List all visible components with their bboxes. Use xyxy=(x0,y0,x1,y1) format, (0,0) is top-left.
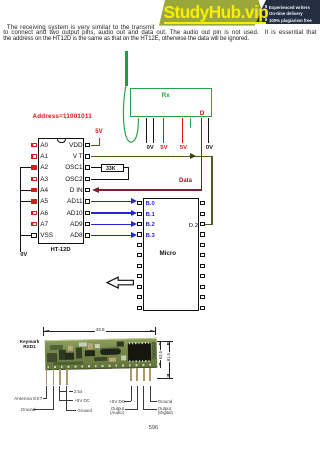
dim text 63.5 xyxy=(158,350,163,360)
VT wire vertical xyxy=(211,156,212,225)
PCB SAW filter xyxy=(100,348,121,356)
Rx label xyxy=(162,92,170,99)
HT-12D notch xyxy=(57,139,66,144)
label B.3 xyxy=(146,233,155,239)
Micro right pin 3 xyxy=(200,222,205,226)
Micro left pin 6 xyxy=(137,253,142,257)
label Output (Audio) xyxy=(107,407,124,416)
HT-12D pin box AD10 xyxy=(85,211,90,216)
antenna wire (thick) xyxy=(125,51,128,86)
HT-12D pin name OSC1 xyxy=(52,164,83,171)
PCB pin (left group) xyxy=(53,369,55,385)
Rx pin 5V b xyxy=(182,118,183,143)
HT-12D pin box A6 xyxy=(31,211,36,216)
Rx pin stub (audio) xyxy=(190,118,191,128)
HT-12D pin box AD9 xyxy=(85,222,90,227)
HT-12D pin box OSC2 xyxy=(85,177,90,182)
Micro left pin 7 xyxy=(137,264,142,268)
Micro left pin 9 xyxy=(137,285,142,289)
label B.0 xyxy=(146,201,155,207)
banner check icon 3 xyxy=(265,18,268,21)
HT-12D pin box A1 xyxy=(31,154,36,159)
bus wire A5 xyxy=(20,201,32,202)
ground bus vertical xyxy=(20,167,21,252)
dimension 43.5 left tick xyxy=(42,327,45,336)
HT-12D pin box VSS xyxy=(31,233,36,238)
dimension 43.5 right tick xyxy=(154,327,157,335)
label 0V ground xyxy=(20,252,27,258)
Micro body xyxy=(143,198,199,311)
HT-12D pin box A7 xyxy=(31,222,36,227)
PCB IC black chip xyxy=(127,343,150,361)
PCB bottom pads xyxy=(47,364,156,368)
dim line 63.5 xyxy=(159,341,162,368)
bus wire A4 xyxy=(20,190,32,191)
arrowhead into B.1 xyxy=(131,210,137,216)
Micro right pin 2 xyxy=(200,212,205,216)
Micro left pin 4 xyxy=(137,232,142,236)
resistor 33K value xyxy=(106,166,116,172)
data wire vertical (maroon) xyxy=(201,118,202,190)
HT-12D pin box A3 xyxy=(31,177,36,182)
HT-12D pin name A3 xyxy=(40,176,48,183)
resistor 33K body xyxy=(101,164,124,172)
PCB small parts xyxy=(47,353,57,362)
Micro left pin 1 xyxy=(137,201,142,205)
PCB pin (right group) xyxy=(136,368,138,381)
Micro right pin 10 xyxy=(200,295,205,299)
HT-12D pin name A7 xyxy=(40,221,48,228)
label Antenna EXT xyxy=(12,396,43,401)
Micro left pin 10 xyxy=(137,295,142,299)
label Ground (left a) xyxy=(21,407,36,412)
wire AD to B.0 (blue) xyxy=(91,201,132,202)
page number xyxy=(149,425,158,431)
HT-12D pin name AD8 xyxy=(52,232,83,239)
label D xyxy=(200,110,205,117)
VT wire arrow xyxy=(190,153,196,159)
dim ext line bottom xyxy=(157,377,173,380)
HT-12D pin name VSS xyxy=(40,232,53,239)
label Ground (left b) xyxy=(77,408,92,413)
Rx pin 5V a xyxy=(163,118,164,143)
label Keymark RXD1 xyxy=(17,340,42,349)
arrowhead into B.0 xyxy=(131,198,137,204)
studyhub olive ribbon xyxy=(158,0,263,26)
Micro left pin 3 xyxy=(137,222,142,226)
dimension 43.5 right arrowhead xyxy=(150,330,155,332)
banner line 3 xyxy=(269,18,312,23)
HT-12D pin name VDD xyxy=(52,142,83,149)
HT-12D pin box A2 xyxy=(31,165,36,170)
HT-12D pin box DIN xyxy=(85,188,90,193)
data wire horizontal xyxy=(97,189,203,190)
dimension 43.5 line xyxy=(44,330,155,333)
lead line +5V DC (left) xyxy=(58,386,61,401)
label Data xyxy=(179,178,192,184)
HT-12D pin name A5 xyxy=(40,198,48,205)
HT-12D pin name A4 xyxy=(40,187,48,194)
Micro right pin 9 xyxy=(200,285,205,289)
HT-12D pin name A2 xyxy=(40,164,48,171)
RF receiver PCB photo xyxy=(45,338,158,371)
HT-12D label xyxy=(51,247,71,253)
label Ground (right) xyxy=(158,399,173,404)
Rx pin 0V a xyxy=(146,118,147,143)
wire AD to B.2 (blue) xyxy=(91,224,132,225)
Micro right pin 7 xyxy=(200,264,205,268)
label Output (Digital) xyxy=(158,407,175,416)
arrowhead into B.2 xyxy=(131,221,137,227)
label +5V DC (left) xyxy=(74,398,89,403)
dim ext line top xyxy=(157,340,173,343)
VT wire into D.2 xyxy=(205,224,213,225)
VT wire (olive) horizontal xyxy=(91,156,213,157)
label 0V right xyxy=(206,145,213,151)
Micro label xyxy=(160,250,177,257)
Micro right pin 1 xyxy=(200,201,205,205)
Micro right pin 4 xyxy=(200,232,205,236)
HT-12D pin name AD10 xyxy=(52,210,83,217)
label 5V a xyxy=(160,145,167,151)
banner line 2 xyxy=(269,11,303,16)
Micro left pin 5 xyxy=(137,243,142,247)
label +5V DC (right) xyxy=(109,399,123,404)
label 5V b xyxy=(180,145,187,151)
lead line Output Audio xyxy=(136,386,139,410)
Micro right pin 5 xyxy=(200,243,205,247)
dim line 81.5 xyxy=(168,341,171,378)
HT-12D pin box AD8 xyxy=(85,233,90,238)
PCB pin (left group) xyxy=(46,369,48,385)
Micro left pin 2 xyxy=(137,212,142,216)
PCB pin (right group) xyxy=(130,368,132,381)
Rx module box xyxy=(130,88,212,117)
label Address xyxy=(33,113,92,120)
antenna loop wire xyxy=(115,80,145,145)
HT-12D pin box AD11 xyxy=(85,199,90,204)
wire AD to B.1 (blue) xyxy=(91,212,132,213)
HT-12D pin box OSC1 xyxy=(85,165,90,170)
HT-12D pin name A1 xyxy=(40,153,48,160)
lead line +5V DC (right) xyxy=(130,386,133,401)
Rx pin 0V b xyxy=(153,118,154,143)
banner check icon 1 xyxy=(265,5,268,8)
lead line Ground (right) xyxy=(149,386,152,401)
HT-12D pin name AD11 xyxy=(52,198,83,205)
studyhub banner navy box xyxy=(254,0,320,24)
HT-12D pin name AD9 xyxy=(52,221,83,228)
resistor 33K wires xyxy=(91,167,102,168)
banner check icon 2 xyxy=(265,12,268,15)
lead line Antenna EXT xyxy=(45,386,48,399)
HT-12D pin box VDD xyxy=(85,143,90,148)
PCB pin (right group) xyxy=(149,368,151,381)
studyhub underline xyxy=(164,22,266,24)
dim 2.54 xyxy=(59,390,66,393)
HT-12D pin box A5 xyxy=(31,199,36,204)
arrowhead into B.3 xyxy=(131,232,137,238)
HT-12D pin name DIN xyxy=(52,187,83,194)
wire AD to B.3 (blue) xyxy=(91,235,132,236)
Micro left pin 8 xyxy=(137,274,142,278)
HT-12D pin name VT xyxy=(52,153,83,160)
dim text 81.5 xyxy=(166,352,171,362)
Micro right pin 8 xyxy=(200,274,205,278)
studyhub wordmark xyxy=(164,2,269,23)
big hollow arrow xyxy=(105,275,136,290)
HT-12D pin box A4 xyxy=(31,188,36,193)
bus wire A2 xyxy=(20,167,32,168)
HT-12D body xyxy=(38,138,84,245)
HT-12D pin name A6 xyxy=(40,210,48,217)
5V wire at VDD xyxy=(91,145,100,146)
PCB pin (right group) xyxy=(143,368,145,381)
Micro left pin 11 xyxy=(137,306,142,310)
dimension 43.5 text xyxy=(95,327,106,332)
HT-12D pin name OSC2 xyxy=(52,176,83,183)
label 0V left xyxy=(147,145,154,151)
label B.2 xyxy=(146,222,155,228)
Micro right pin 6 xyxy=(200,253,205,257)
label D.2 xyxy=(189,223,198,229)
Micro right pin 11 xyxy=(200,306,205,310)
HT-12D pin name A0 xyxy=(40,142,48,149)
data arrowhead into DIN xyxy=(92,187,99,193)
label 5V (VDD) xyxy=(95,129,102,135)
banner line 1 xyxy=(269,5,310,10)
HT-12D pin box VT xyxy=(85,154,90,159)
bus wire VSS xyxy=(20,235,32,236)
dimension 43.5 left arrowhead xyxy=(44,330,49,332)
lead line Output Digital xyxy=(142,386,145,410)
PCB pin (left group) xyxy=(66,369,68,385)
paragraph text xyxy=(7,24,155,31)
Rx pin 0V c xyxy=(208,118,209,143)
label B.1 xyxy=(146,212,155,218)
lead line Ground (left a) xyxy=(52,386,55,409)
lead line Ground (left b) xyxy=(65,386,68,411)
HT-12D pin box A0 xyxy=(31,143,36,148)
PCB pin (left group) xyxy=(59,369,61,385)
